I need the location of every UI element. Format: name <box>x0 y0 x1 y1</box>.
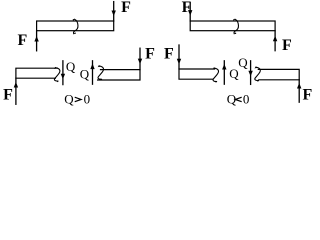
svg-text:F: F <box>18 32 28 49</box>
svg-text:F: F <box>303 87 313 104</box>
svg-text:F: F <box>145 46 155 63</box>
svg-text:Q: Q <box>66 59 76 74</box>
svg-text:Q0: Q0 <box>64 91 90 106</box>
svg-text:Q: Q <box>80 67 90 82</box>
svg-text:F: F <box>3 87 13 104</box>
svg-text:F: F <box>121 0 131 16</box>
svg-text:F: F <box>182 0 192 16</box>
svg-text:F: F <box>282 37 292 54</box>
svg-text:Q: Q <box>238 55 248 70</box>
svg-text:F: F <box>164 46 174 63</box>
